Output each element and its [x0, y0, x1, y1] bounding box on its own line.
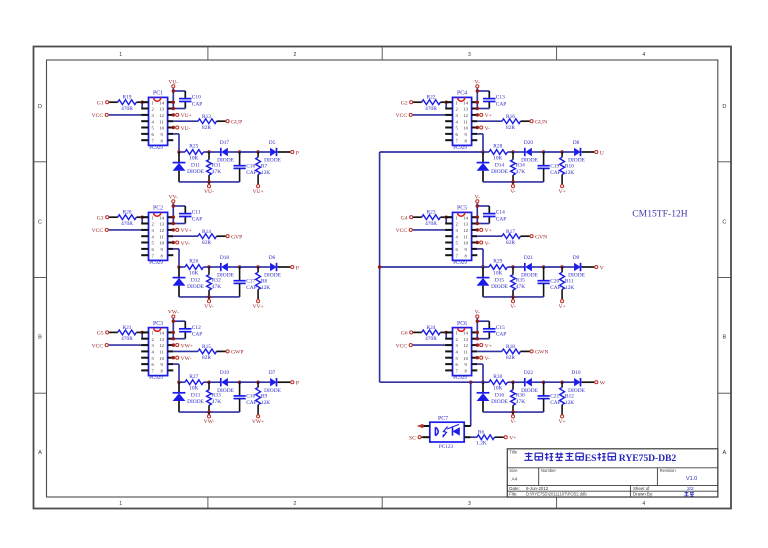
resistor R8	[256, 267, 271, 299]
port GUN	[530, 120, 547, 126]
wire	[532, 151, 544, 153]
wire	[258, 151, 270, 153]
svg-text:VCC: VCC	[92, 113, 104, 119]
svg-text:CAP: CAP	[496, 332, 507, 338]
wire	[109, 114, 149, 116]
title block fields	[509, 468, 697, 497]
wire	[278, 151, 291, 153]
port V-	[510, 412, 516, 425]
node after series resistor	[511, 381, 514, 384]
wire	[477, 133, 483, 135]
svg-text:CAP: CAP	[550, 285, 561, 291]
svg-text:VCC: VCC	[396, 343, 408, 349]
svg-text:R24: R24	[427, 325, 436, 331]
svg-text:470R: 470R	[425, 221, 437, 227]
svg-text:D11: D11	[191, 162, 200, 168]
svg-text:C21: C21	[550, 394, 559, 400]
port V- (top)	[475, 79, 481, 87]
svg-text:R35: R35	[516, 277, 525, 283]
svg-text:R29: R29	[493, 259, 502, 265]
port V- (pin 10)	[476, 126, 491, 132]
svg-text:File:: File:	[509, 492, 517, 497]
svg-text:VV-: VV-	[181, 241, 191, 247]
node G-pin junction	[141, 101, 144, 104]
svg-text:1: 1	[119, 52, 122, 58]
svg-text:V+: V+	[485, 343, 492, 349]
svg-text:U: U	[600, 150, 604, 156]
node G-pin junction	[445, 216, 448, 219]
port P (output)	[291, 381, 299, 387]
svg-text:D18: D18	[220, 255, 230, 261]
svg-text:D6: D6	[269, 255, 276, 261]
svg-text:Drawn By:: Drawn By:	[633, 492, 653, 497]
svg-text:13: 13	[463, 107, 468, 112]
wire	[141, 102, 143, 108]
wire	[562, 266, 574, 268]
node after series resistor	[207, 381, 210, 384]
port VU-	[204, 182, 214, 195]
node clamp row left	[481, 265, 484, 268]
svg-text:C10: C10	[192, 95, 201, 101]
capacitor C10	[179, 95, 202, 108]
svg-text:R9: R9	[261, 394, 268, 400]
svg-text:11: 11	[159, 119, 164, 124]
svg-text:P: P	[296, 265, 299, 271]
wire	[173, 133, 179, 135]
svg-text:12: 12	[463, 113, 468, 118]
diode D9	[568, 255, 585, 279]
wire	[203, 151, 209, 153]
svg-text:V: V	[600, 265, 604, 271]
port VCC	[92, 343, 109, 349]
diode D12	[173, 267, 205, 297]
wire bottom rail	[179, 296, 240, 298]
svg-text:CAP: CAP	[246, 285, 257, 291]
svg-text:10: 10	[463, 356, 468, 361]
port VU+	[252, 185, 263, 195]
node rail	[511, 295, 514, 298]
svg-text:V-: V-	[510, 189, 516, 195]
svg-text:VCC: VCC	[92, 343, 104, 349]
node pin13	[172, 337, 175, 340]
port VV+ (pin 12)	[172, 228, 192, 234]
svg-text:R18: R18	[506, 344, 515, 350]
wire	[172, 203, 174, 223]
svg-text:V+: V+	[485, 113, 492, 119]
svg-text:RYE75D-DB2: RYE75D-DB2	[619, 453, 677, 464]
port U (output)	[595, 150, 604, 156]
svg-text:2/2: 2/2	[687, 486, 694, 492]
capacitor C13	[483, 95, 506, 108]
svg-text:C19: C19	[550, 163, 559, 169]
svg-text:ES: ES	[585, 453, 598, 464]
wire	[173, 248, 179, 250]
svg-text:Title: Title	[509, 449, 517, 454]
svg-text:PC123: PC123	[439, 444, 454, 450]
svg-text:GVN: GVN	[535, 235, 547, 241]
svg-text:V+: V+	[558, 419, 565, 425]
svg-text:2: 2	[294, 501, 297, 507]
svg-text:R30: R30	[493, 374, 502, 380]
svg-text:11: 11	[463, 234, 468, 239]
wire	[582, 266, 595, 268]
node rail	[207, 180, 210, 183]
svg-text:10: 10	[463, 241, 468, 246]
resistor R6	[476, 429, 494, 446]
wire	[582, 381, 595, 383]
node cap top	[542, 381, 545, 384]
wire	[173, 350, 198, 352]
wire	[109, 229, 149, 231]
svg-text:12: 12	[159, 343, 164, 348]
node PC7 feed tap	[469, 381, 472, 384]
svg-text:13: 13	[463, 222, 468, 227]
diode D15	[477, 267, 509, 297]
svg-text:GVP: GVP	[231, 235, 242, 241]
node clamp row left	[481, 381, 484, 384]
svg-text:470R: 470R	[425, 106, 437, 112]
svg-text:470R: 470R	[425, 336, 437, 342]
port VCC	[396, 343, 413, 349]
svg-text:V-: V-	[485, 356, 491, 362]
port V+ (pin 12)	[476, 113, 492, 119]
svg-text:PC929: PC929	[149, 261, 163, 266]
svg-text:CAP: CAP	[550, 170, 561, 176]
svg-text:DIODE: DIODE	[491, 169, 508, 175]
svg-text:3: 3	[468, 52, 471, 58]
resistor R12	[560, 382, 575, 414]
wire	[173, 235, 198, 237]
svg-text:4: 4	[642, 52, 645, 58]
resistor R9	[256, 382, 271, 414]
svg-text:82R: 82R	[506, 240, 515, 246]
diode D19	[217, 370, 234, 394]
svg-text:14: 14	[463, 331, 468, 336]
port V- (pin 10)	[476, 241, 491, 247]
svg-text:DIODE: DIODE	[491, 399, 508, 405]
resistor R11	[560, 267, 575, 299]
svg-text:11: 11	[463, 350, 468, 355]
optocoupler IC PC1	[141, 91, 173, 151]
port VV- (pin 10)	[172, 241, 191, 247]
svg-text:14: 14	[463, 100, 468, 105]
svg-text:Revision: Revision	[660, 468, 677, 473]
wire	[513, 266, 525, 268]
svg-text:VU+: VU+	[252, 189, 263, 195]
port VW-	[204, 412, 215, 425]
svg-text:CAP: CAP	[246, 170, 257, 176]
node cap top	[238, 150, 241, 153]
svg-text:PC929: PC929	[453, 146, 467, 151]
node cap top	[542, 265, 545, 268]
port V-	[510, 297, 516, 310]
svg-text:V-: V-	[510, 419, 516, 425]
wire	[258, 266, 270, 268]
wire	[413, 101, 422, 103]
svg-text:12K: 12K	[261, 170, 270, 176]
svg-text:PC6: PC6	[457, 321, 467, 327]
port V- (top)	[475, 310, 481, 318]
svg-text:82R: 82R	[202, 355, 211, 361]
node cap branch	[476, 320, 479, 323]
svg-text:W: W	[600, 381, 606, 387]
wire	[477, 320, 489, 322]
svg-text:PC3: PC3	[153, 321, 163, 327]
svg-text:R17: R17	[506, 229, 515, 235]
svg-text:470R: 470R	[121, 221, 133, 227]
wire	[240, 266, 259, 268]
wire	[179, 151, 185, 153]
svg-text:VV+: VV+	[181, 228, 192, 234]
port V- (top)	[475, 194, 481, 202]
wire	[413, 229, 453, 231]
wire	[544, 266, 563, 268]
port V+	[504, 435, 516, 441]
svg-text:R23: R23	[427, 210, 436, 216]
svg-text:Sheet of: Sheet of	[633, 486, 650, 491]
resistor R33	[207, 382, 222, 412]
svg-text:DIODE: DIODE	[491, 284, 508, 290]
svg-text:VW+: VW+	[181, 343, 193, 349]
wire	[495, 436, 504, 438]
wire	[521, 235, 530, 237]
wire	[209, 381, 221, 383]
svg-text:V+: V+	[485, 228, 492, 234]
node cap branch	[172, 320, 175, 323]
resistor R26	[185, 259, 203, 277]
wire	[173, 205, 185, 207]
wire	[445, 217, 447, 223]
port V- (pin 10)	[476, 356, 491, 362]
svg-text:470R: 470R	[121, 106, 133, 112]
wire	[240, 151, 259, 153]
wire	[521, 350, 530, 352]
capacitor C17	[234, 267, 257, 297]
wire bottom rail	[483, 181, 544, 183]
wire	[440, 101, 452, 103]
capacitor C12	[179, 325, 202, 338]
port V+	[558, 185, 565, 195]
svg-text:DIODE: DIODE	[187, 284, 204, 290]
node clamp row left	[481, 150, 484, 153]
svg-text:D10: D10	[571, 370, 581, 376]
diode D14	[477, 152, 509, 182]
port SC	[409, 435, 421, 441]
svg-text:D16: D16	[495, 393, 505, 399]
node cap branch	[172, 204, 175, 207]
wire	[203, 266, 209, 268]
diode D13	[173, 382, 205, 412]
svg-text:D5: D5	[269, 140, 276, 146]
resistor R19	[118, 95, 137, 112]
node pullup top	[256, 150, 259, 153]
wire	[562, 151, 574, 153]
svg-text:CAP: CAP	[192, 216, 203, 222]
svg-text:CAP: CAP	[192, 332, 203, 338]
wire bus vertical	[379, 152, 381, 382]
svg-text:PC2: PC2	[153, 206, 163, 212]
node cap branch	[476, 89, 479, 92]
port W (output)	[595, 381, 606, 387]
svg-text:C: C	[38, 220, 42, 226]
svg-text:12: 12	[159, 228, 164, 233]
resistor R14	[198, 229, 217, 246]
svg-text:D13: D13	[191, 393, 201, 399]
svg-text:GWN: GWN	[535, 350, 548, 356]
wire bus to PC5 row	[380, 266, 483, 268]
wire	[544, 151, 563, 153]
resistor R25	[185, 144, 203, 162]
svg-text:R8: R8	[261, 278, 268, 284]
wire	[209, 151, 221, 153]
svg-text:V+: V+	[509, 435, 516, 441]
svg-text:C16: C16	[246, 163, 255, 169]
wire	[507, 266, 513, 268]
svg-text:PC929: PC929	[453, 261, 467, 266]
svg-text:3: 3	[468, 501, 471, 507]
svg-text:10K: 10K	[493, 386, 502, 392]
svg-text:14: 14	[159, 215, 164, 220]
node pin14	[476, 216, 479, 219]
node after series resistor	[207, 150, 210, 153]
svg-text:R36: R36	[516, 393, 525, 399]
capacitor C19	[538, 152, 561, 182]
svg-text:PC7: PC7	[438, 416, 448, 422]
wire	[477, 363, 483, 365]
svg-text:47K: 47K	[212, 284, 221, 290]
resistor R32	[207, 267, 222, 297]
wire	[217, 235, 226, 237]
optocoupler IC PC6	[445, 321, 477, 381]
svg-text:C13: C13	[496, 95, 505, 101]
svg-text:VW-: VW-	[181, 356, 192, 362]
capacitor C11	[179, 210, 202, 223]
svg-text:C17: C17	[246, 278, 255, 284]
capacitor C18	[234, 382, 257, 412]
port G2	[401, 100, 413, 106]
wire down to PC7	[470, 382, 472, 426]
svg-text:R25: R25	[189, 144, 198, 150]
svg-text:V-: V-	[485, 126, 491, 132]
node cap branch	[476, 204, 479, 207]
node rail	[511, 410, 514, 413]
svg-text:12: 12	[463, 343, 468, 348]
svg-text:10K: 10K	[189, 386, 198, 392]
svg-text:CAP: CAP	[496, 101, 507, 107]
optocoupler IC PC5	[445, 206, 477, 266]
svg-text:R14: R14	[202, 229, 211, 235]
svg-text:GUN: GUN	[535, 120, 547, 126]
svg-text:V+: V+	[558, 189, 565, 195]
diode D21	[521, 255, 538, 279]
svg-text:SC: SC	[409, 435, 416, 441]
optocoupler PC7	[423, 416, 470, 450]
port VW+ (pin 12)	[172, 343, 193, 349]
port GWN	[530, 350, 548, 356]
wire	[477, 235, 502, 237]
svg-text:13: 13	[463, 337, 468, 342]
wire	[172, 88, 174, 108]
svg-text:12K: 12K	[565, 400, 574, 406]
wire	[179, 266, 185, 268]
svg-text:R33: R33	[212, 393, 221, 399]
capacitor C15	[483, 325, 506, 338]
svg-text:47K: 47K	[516, 284, 525, 290]
port VW- (top)	[168, 310, 179, 318]
svg-text:47K: 47K	[212, 169, 221, 175]
diode D18	[217, 255, 234, 279]
svg-text:V-: V-	[485, 241, 491, 247]
resistor R29	[489, 259, 507, 277]
svg-text:10K: 10K	[189, 155, 198, 161]
wire	[477, 248, 483, 250]
port VCC	[92, 228, 109, 234]
wire	[228, 381, 240, 383]
wire	[440, 331, 452, 333]
resistor R31	[207, 152, 222, 182]
wire	[228, 151, 240, 153]
svg-text:G6: G6	[401, 331, 408, 337]
svg-text:VU-: VU-	[181, 126, 191, 132]
wire bottom rail	[483, 296, 544, 298]
svg-text:12: 12	[463, 228, 468, 233]
svg-text:470R: 470R	[121, 336, 133, 342]
node pin13	[172, 222, 175, 225]
node rail	[207, 295, 210, 298]
resistor R16	[502, 114, 521, 131]
svg-text:R10: R10	[565, 163, 574, 169]
svg-text:GUP: GUP	[231, 120, 242, 126]
port VV+	[252, 300, 263, 310]
capacitor C14	[483, 210, 506, 223]
svg-text:14: 14	[159, 331, 164, 336]
svg-text:14: 14	[159, 100, 164, 105]
diode D6	[264, 255, 281, 279]
wire	[471, 436, 477, 438]
node after series resistor	[511, 265, 514, 268]
wire	[179, 381, 185, 383]
svg-text:14: 14	[463, 215, 468, 220]
node cap top	[238, 265, 241, 268]
resistor R35	[511, 267, 526, 297]
svg-text:4: 4	[642, 501, 645, 507]
svg-text:G4: G4	[401, 215, 408, 221]
optocoupler IC PC4	[445, 91, 477, 151]
port VV- (top)	[169, 194, 179, 202]
svg-text:D22: D22	[524, 370, 534, 376]
svg-text:47K: 47K	[516, 399, 525, 405]
resistor R15	[198, 344, 217, 361]
svg-text:47K: 47K	[516, 169, 525, 175]
svg-text:C: C	[722, 220, 726, 226]
port VCC	[396, 228, 413, 234]
svg-text:12: 12	[159, 113, 164, 118]
node pin14	[172, 101, 175, 104]
wire bus to PC4 row	[380, 151, 483, 153]
svg-text:D12: D12	[191, 277, 201, 283]
node pin13	[476, 107, 479, 110]
svg-text:R12: R12	[565, 394, 574, 400]
node pullup top	[560, 150, 563, 153]
svg-text:C11: C11	[192, 210, 201, 216]
resistor R28	[489, 144, 507, 162]
resistor R34	[511, 152, 526, 182]
wire	[513, 151, 525, 153]
svg-text:R34: R34	[516, 162, 525, 168]
title block	[507, 449, 718, 497]
svg-text:R11: R11	[565, 278, 574, 284]
svg-text:10: 10	[463, 126, 468, 131]
